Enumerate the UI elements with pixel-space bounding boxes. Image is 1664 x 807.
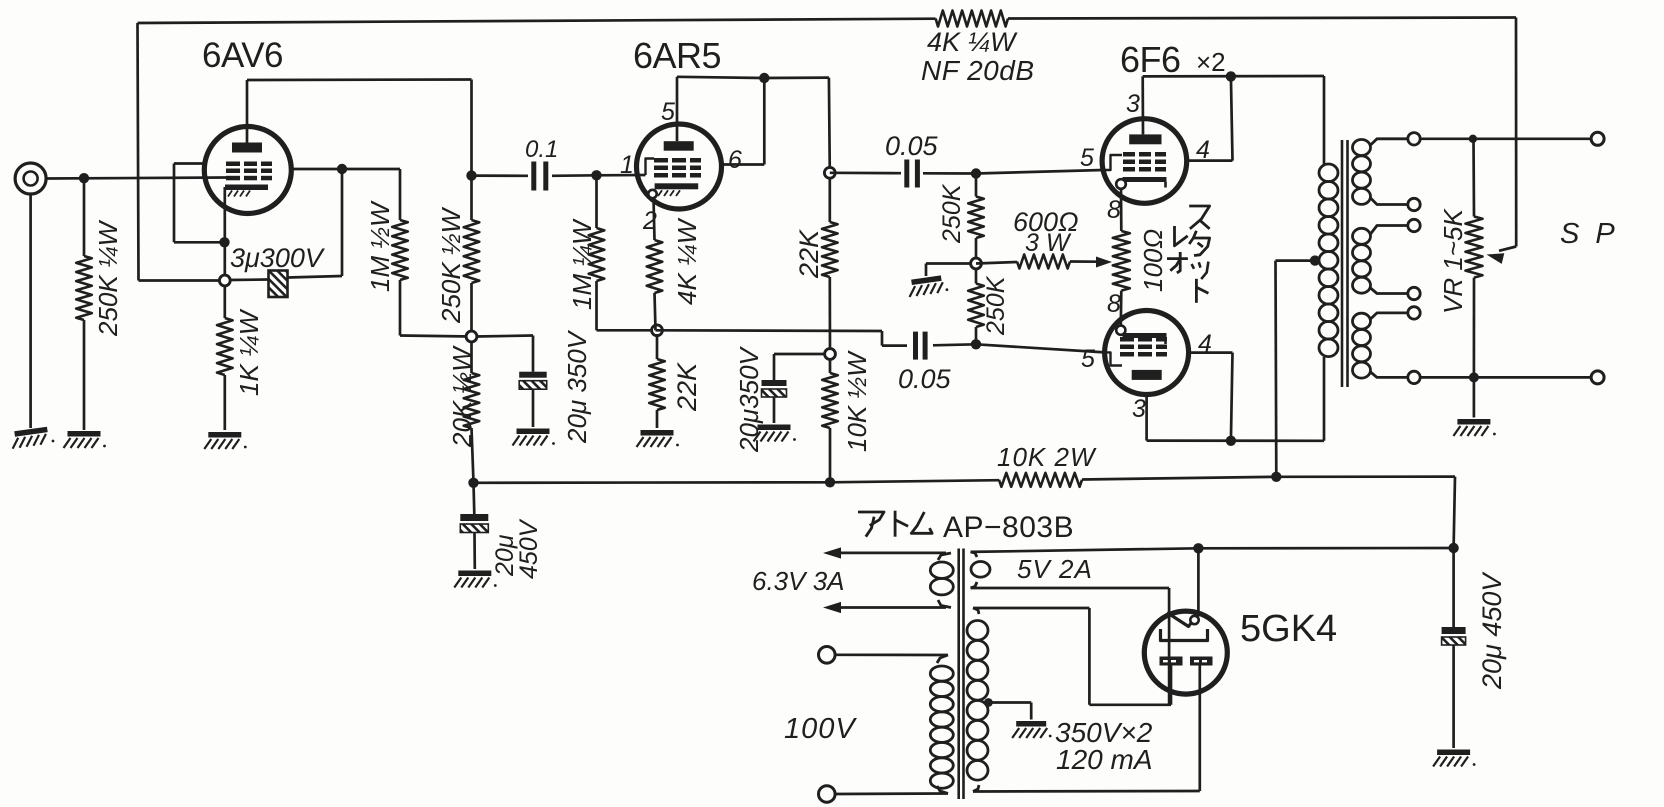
- svg-text:5V 2A: 5V 2A: [1017, 554, 1093, 584]
- svg-text:6F6: 6F6: [1120, 39, 1181, 80]
- svg-text:22K: 22K: [794, 229, 824, 279]
- svg-text:20μ 350V: 20μ 350V: [562, 329, 592, 444]
- svg-text:6: 6: [728, 146, 742, 174]
- svg-text:NF 20dB: NF 20dB: [921, 55, 1035, 86]
- svg-text:100V: 100V: [784, 713, 857, 745]
- svg-text:100Ω: 100Ω: [1138, 229, 1168, 292]
- svg-text:5: 5: [1080, 144, 1094, 172]
- svg-text:250K: 250K: [938, 183, 966, 244]
- svg-text:8: 8: [1107, 290, 1121, 318]
- svg-text:1: 1: [620, 151, 634, 179]
- svg-text:S P: S P: [1560, 218, 1619, 250]
- svg-text:1M ¼W: 1M ¼W: [567, 218, 597, 310]
- svg-text:5: 5: [661, 98, 675, 126]
- svg-text:20μ350V: 20μ350V: [734, 345, 764, 453]
- svg-text:4: 4: [1198, 330, 1212, 358]
- svg-text:6.3V 3A: 6.3V 3A: [752, 566, 845, 596]
- svg-text:1K ¼W: 1K ¼W: [234, 308, 264, 396]
- svg-text:120 mA: 120 mA: [1056, 744, 1153, 775]
- svg-text:6AR5: 6AR5: [633, 35, 721, 76]
- svg-text:250K ½W: 250K ½W: [436, 206, 466, 324]
- svg-text:6AV6: 6AV6: [202, 36, 283, 75]
- svg-text:3: 3: [1126, 90, 1140, 118]
- svg-text:0.1: 0.1: [525, 136, 558, 163]
- svg-text:4K ¼W: 4K ¼W: [927, 27, 1018, 57]
- svg-text:22K: 22K: [672, 362, 702, 412]
- svg-text:10K 2W: 10K 2W: [997, 442, 1097, 472]
- svg-text:3 W: 3 W: [1025, 229, 1072, 257]
- svg-text:2: 2: [642, 207, 657, 235]
- svg-text:3: 3: [1132, 395, 1146, 423]
- svg-text:VR 1~5K: VR 1~5K: [1438, 208, 1468, 314]
- svg-text:4: 4: [1196, 136, 1210, 164]
- svg-text:1M ½W: 1M ½W: [365, 200, 395, 292]
- svg-text:×2: ×2: [1196, 47, 1226, 77]
- svg-text:10K ½W: 10K ½W: [842, 350, 872, 452]
- svg-text:8: 8: [1107, 196, 1121, 224]
- svg-text:250K: 250K: [982, 275, 1010, 336]
- svg-text:450V: 450V: [515, 518, 543, 579]
- svg-text:0.05: 0.05: [898, 364, 952, 394]
- svg-text:5: 5: [1081, 345, 1095, 373]
- svg-text:250K ¼W: 250K ¼W: [93, 219, 123, 337]
- svg-text:AP−803B: AP−803B: [943, 511, 1074, 544]
- svg-text:4K ¼W: 4K ¼W: [672, 217, 702, 305]
- svg-text:20K ½W: 20K ½W: [447, 345, 477, 448]
- svg-text:0.05: 0.05: [885, 131, 939, 161]
- svg-text:3μ300V: 3μ300V: [230, 243, 326, 273]
- svg-text:20μ 450V: 20μ 450V: [1477, 571, 1507, 690]
- svg-text:5GK4: 5GK4: [1240, 608, 1337, 650]
